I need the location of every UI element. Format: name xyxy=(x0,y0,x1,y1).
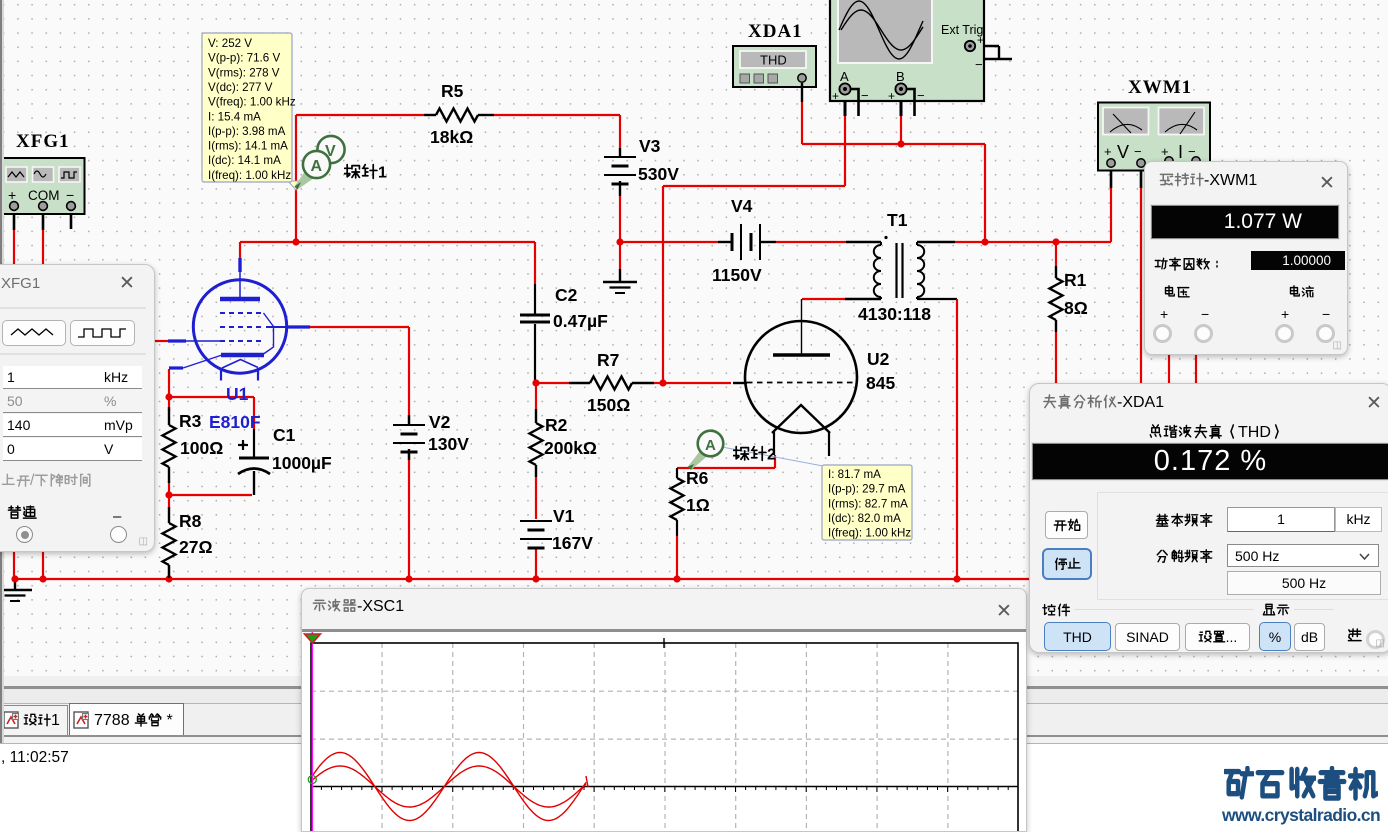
window left border xyxy=(0,0,2,743)
resistor R5 18k xyxy=(424,109,494,122)
node bus com xyxy=(39,575,46,582)
svg-text:−: − xyxy=(1134,144,1142,159)
label 探针2 xyxy=(733,445,776,465)
wire V3 to ground xyxy=(619,242,621,269)
wire U1 input wire stub xyxy=(155,340,168,342)
svg-text:U2: U2 xyxy=(867,349,890,369)
svg-text:R3: R3 xyxy=(179,411,202,431)
svg-text:150Ω: 150Ω xyxy=(587,395,630,415)
svg-text:R8: R8 xyxy=(179,511,202,531)
distortion analyzer panel 失真分析仪-XDA1 xyxy=(1029,383,1388,653)
svg-text:200kΩ: 200kΩ xyxy=(544,438,597,458)
svg-text:V: V xyxy=(1117,142,1129,162)
wire XDA horizontal xyxy=(802,143,985,145)
svg-text:−: − xyxy=(861,88,869,103)
transformer T1 4130:118 xyxy=(845,236,955,299)
svg-text:I(rms): 82.7 mA: I(rms): 82.7 mA xyxy=(828,497,908,510)
resistor R2 200k xyxy=(530,409,543,477)
wire C2 top lead xyxy=(534,242,536,284)
wire R1 top lead xyxy=(1055,242,1057,266)
wire R3 bottom xyxy=(168,481,170,495)
wire V3 top lead xyxy=(619,115,621,148)
svg-text:130V: 130V xyxy=(428,434,469,454)
wire R8 bottom lead xyxy=(168,565,170,579)
wire R5-left vertical to plate line xyxy=(295,115,297,242)
capacitor C1 1000uF polarized xyxy=(238,429,270,495)
wire R7 right short xyxy=(654,382,663,384)
wire output to bus xyxy=(956,299,958,579)
wire C1 top lead xyxy=(253,397,255,429)
wire scope-B net vertical xyxy=(984,144,986,242)
tube U2 845 xyxy=(733,299,857,456)
resistor R8 27 xyxy=(163,507,176,578)
probe2 measurement box xyxy=(822,465,912,540)
wire XWM I+ drop xyxy=(1168,352,1170,383)
node R1 tap xyxy=(1052,238,1059,245)
svg-text:100Ω: 100Ω xyxy=(180,438,223,458)
svg-text:T1: T1 xyxy=(887,210,908,230)
wire U1 right pin wire xyxy=(310,326,409,328)
svg-text:−: − xyxy=(975,57,983,72)
probe 探针2 leader line xyxy=(722,447,823,466)
wire C2 bottom lead xyxy=(534,324,536,383)
wire XFG + wire lower xyxy=(13,550,15,579)
svg-text:U1: U1 xyxy=(226,384,249,404)
node grid node xyxy=(659,379,666,386)
label 探针1 xyxy=(344,163,387,183)
wire XWM I- drop xyxy=(1195,352,1197,383)
wire ext trig + stub xyxy=(975,45,999,47)
probe 探针2 arrow xyxy=(688,431,723,470)
wire bus to ground symbol xyxy=(14,579,16,589)
svg-text:A: A xyxy=(840,69,849,84)
wire U2 plate to T1 xyxy=(802,298,845,300)
wire C1 bottom lead xyxy=(253,471,255,495)
node bus gnd xyxy=(11,575,18,582)
wire U1 g2 to V2 xyxy=(408,327,410,423)
svg-text:+: + xyxy=(888,89,895,103)
wire T1 bottom right lead xyxy=(917,298,957,300)
wire scope A wire down xyxy=(844,116,846,186)
svg-text:I(dc): 82.0 mA: I(dc): 82.0 mA xyxy=(828,512,901,525)
ground (V3) xyxy=(603,269,637,293)
wire XWM V- drop xyxy=(1140,187,1142,383)
svg-text:I: 81.7 mA: I: 81.7 mA xyxy=(828,468,881,481)
node bus R8 xyxy=(165,575,172,582)
node XDA/scopeB xyxy=(897,140,904,147)
resistor R7 150 xyxy=(569,377,654,390)
node plate/R5 xyxy=(292,238,299,245)
svg-text:−: − xyxy=(66,187,74,203)
node bus V2 xyxy=(405,575,412,582)
wire C1 bottom link xyxy=(169,494,252,496)
sheet tab 设计1 xyxy=(0,705,68,735)
svg-text:8Ω: 8Ω xyxy=(1064,298,1088,318)
bottom chrome bands xyxy=(0,676,1388,830)
svg-text:1150V: 1150V xyxy=(712,265,762,285)
battery V4 1150V xyxy=(718,224,776,260)
wire U2 cathode wire xyxy=(774,455,776,468)
svg-text:V: 252 V: V: 252 V xyxy=(208,37,252,50)
svg-text:THD: THD xyxy=(760,53,787,68)
wire V3 bottom xyxy=(619,196,621,242)
tube U1 E810F xyxy=(168,258,310,381)
wire R1 bottom to analyzer xyxy=(1055,332,1057,383)
wire ext trig - stub xyxy=(970,58,1012,60)
wire R6 to bus xyxy=(676,536,678,579)
wire grid wire to U2 xyxy=(663,382,731,384)
svg-text:R1: R1 xyxy=(1064,270,1087,290)
wire U1 plate line xyxy=(240,241,535,243)
svg-text:V1: V1 xyxy=(553,506,575,526)
wire R2 top lead xyxy=(535,383,537,409)
node C2/R2/R7 xyxy=(532,379,539,386)
svg-text:XDA1: XDA1 xyxy=(748,21,803,42)
svg-text:E810F: E810F xyxy=(209,412,261,432)
wire XWM V+ drop xyxy=(1110,187,1112,242)
svg-text:R7: R7 xyxy=(597,350,619,370)
wire V2 bottom lead xyxy=(408,451,410,579)
sheet tab 7788 单管 xyxy=(69,703,184,735)
svg-text:I(freq): 1.00 kHz: I(freq): 1.00 kHz xyxy=(208,169,291,182)
oscilloscope panel 示波器-XSC1 xyxy=(301,588,1027,832)
svg-text:+: + xyxy=(8,187,16,203)
wire XFG COM wire lower xyxy=(42,550,44,579)
wire R6 top lead xyxy=(676,468,678,478)
node bus output xyxy=(953,575,960,582)
svg-text:R6: R6 xyxy=(686,468,709,488)
wire XFG + wire xyxy=(13,230,15,264)
probe 探针1 arrow xyxy=(295,136,345,190)
svg-text:V3: V3 xyxy=(639,136,661,156)
resistor R3 100 xyxy=(163,407,176,483)
capacitor C2 0.47uF xyxy=(520,284,550,322)
svg-text:C1: C1 xyxy=(273,425,296,445)
wire T1 secondary top to XWM xyxy=(955,241,1111,243)
wire cathode to R6 xyxy=(677,467,775,469)
wire R7 left lead wire xyxy=(536,382,569,384)
resistor R1 8 xyxy=(1050,266,1063,332)
function generator XFG1 xyxy=(2,158,85,214)
svg-text:COM: COM xyxy=(28,188,60,203)
svg-text:+: + xyxy=(977,33,984,47)
wattmeter XWM1 (component) xyxy=(1098,103,1210,171)
node bus V1 xyxy=(532,575,539,582)
svg-text:XWM1: XWM1 xyxy=(1128,77,1192,98)
svg-text:−: − xyxy=(917,88,925,103)
svg-text:+: + xyxy=(832,89,839,103)
battery V3 530V xyxy=(604,148,636,196)
distortion analyzer XDA1 xyxy=(733,46,816,102)
node bus R6 xyxy=(673,575,680,582)
wire scope B wire xyxy=(900,116,902,144)
node R3/C1/R8 xyxy=(165,491,172,498)
battery V2 130V xyxy=(393,415,425,460)
wire R3/C1 top link xyxy=(169,396,254,398)
wire R5 left (node plate-R5) xyxy=(296,114,424,116)
svg-text:18kΩ: 18kΩ xyxy=(430,127,473,147)
svg-text:A: A xyxy=(311,158,323,175)
watermark url xyxy=(1222,805,1380,826)
wire scope A... B stub xyxy=(900,95,903,116)
svg-text:I(freq): 1.00 kHz: I(freq): 1.00 kHz xyxy=(828,527,911,540)
svg-text:845: 845 xyxy=(866,373,895,393)
wire R3 top lead xyxy=(168,397,170,411)
svg-text:A: A xyxy=(705,437,716,454)
wire R5 right to V3 xyxy=(494,114,620,116)
watermark 矿石收音机 xyxy=(1223,766,1378,802)
svg-text:I: 15.4 mA: I: 15.4 mA xyxy=(208,110,261,123)
svg-text:V2: V2 xyxy=(429,412,451,432)
wire scope A wire horizontal xyxy=(663,185,845,187)
wattmeter panel 瓦特计-XWM1 xyxy=(1144,161,1348,355)
wire XFG COM wire xyxy=(42,230,44,264)
wire R2 to V1 xyxy=(535,477,537,519)
svg-text:I: I xyxy=(1178,142,1183,162)
svg-text:167V: 167V xyxy=(552,533,593,553)
wire ground bus xyxy=(15,578,1029,580)
svg-text:1000µF: 1000µF xyxy=(272,453,332,473)
svg-text:I(p-p): 3.98 mA: I(p-p): 3.98 mA xyxy=(208,125,286,138)
resistor R6 1 xyxy=(671,478,684,520)
wire R8 top lead xyxy=(168,495,170,509)
svg-text:+: + xyxy=(1104,144,1112,159)
probe1 measurement box xyxy=(202,33,296,182)
svg-text:530V: 530V xyxy=(638,164,679,184)
wire R6 bottom lead xyxy=(676,520,678,536)
status text 11:02:57 xyxy=(1,749,69,767)
wire scope A stub xyxy=(844,95,847,116)
wire XDA input drop xyxy=(801,102,803,144)
wire scope A wire to grid node xyxy=(662,186,664,383)
oscilloscope XSC1 (component) xyxy=(830,0,984,116)
svg-text:27Ω: 27Ω xyxy=(179,537,213,557)
node V3/V4/gnd xyxy=(616,238,623,245)
svg-text:I(p-p): 29.7 mA: I(p-p): 29.7 mA xyxy=(828,483,906,496)
svg-text:1Ω: 1Ω xyxy=(686,495,710,515)
node cathode/R3/C1 xyxy=(165,393,172,400)
svg-text:4130:118: 4130:118 xyxy=(858,304,931,324)
svg-text:I(rms): 14.1 mA: I(rms): 14.1 mA xyxy=(208,140,288,153)
battery V1 167V xyxy=(520,521,552,548)
node output/scopeB xyxy=(981,238,988,245)
XFG1 settings panel xyxy=(0,264,155,552)
svg-text:V(rms): 278 V: V(rms): 278 V xyxy=(208,66,280,79)
svg-text:B: B xyxy=(896,69,905,84)
svg-text:R2: R2 xyxy=(545,415,568,435)
wire U1 cathode wire xyxy=(168,369,170,397)
wire V3 junction to V4 xyxy=(620,241,718,243)
svg-text:V(dc): 277 V: V(dc): 277 V xyxy=(208,81,273,94)
wire U1 plate drop xyxy=(239,242,241,258)
ground (bus) xyxy=(0,590,32,601)
svg-text:V(p-p): 71.6 V: V(p-p): 71.6 V xyxy=(208,52,280,65)
svg-text:R5: R5 xyxy=(441,81,464,101)
svg-text:I(dc): 14.1 mA: I(dc): 14.1 mA xyxy=(208,154,281,167)
wire V4 to T1 primary xyxy=(776,241,846,243)
svg-text:V4: V4 xyxy=(731,196,753,216)
probe leader (probe1) xyxy=(288,181,300,190)
svg-text:0.47µF: 0.47µF xyxy=(553,311,608,331)
svg-text:XFG1: XFG1 xyxy=(16,131,70,152)
wire V1 bottom lead xyxy=(535,547,537,579)
svg-text:C2: C2 xyxy=(555,285,578,305)
svg-text:V(freq): 1.00 kHz: V(freq): 1.00 kHz xyxy=(208,96,296,109)
